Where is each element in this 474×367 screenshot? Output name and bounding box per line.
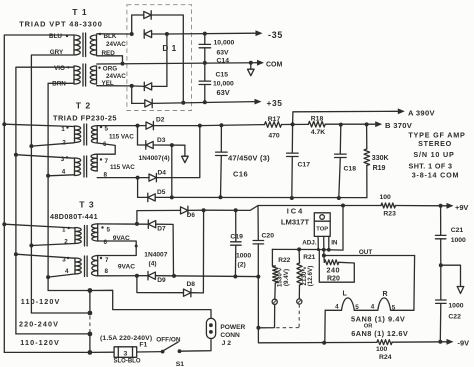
wire R21 bottom dashed: [260, 304, 300, 328]
svg-text:24VAC: 24VAC: [106, 73, 126, 80]
diode D8: [184, 289, 191, 296]
wire T2 pins 6-7 jumper: [97, 143, 115, 154]
svg-text:L: L: [343, 291, 348, 298]
wire D8 out up to +9 rail: [191, 210, 204, 293]
svg-text:5: 5: [105, 126, 109, 133]
svg-text:T 2: T 2: [76, 101, 91, 111]
capacitor C19: [230, 210, 251, 276]
wire riser to A 390V: [293, 108, 436, 124]
bridge rectifier D1 dashed box: [127, 5, 192, 111]
wire -9V arrow: [438, 339, 469, 348]
svg-text:C21: C21: [451, 227, 464, 234]
svg-text:110-120V: 110-120V: [21, 297, 61, 306]
wire R18 to B arrow: [325, 121, 413, 130]
wire YEL node: [97, 85, 132, 87]
svg-text:ORG: ORG: [103, 66, 117, 73]
wire RED to com: [97, 56, 123, 64]
resistor R17: [265, 116, 282, 140]
diode D6: [181, 207, 188, 214]
node RED-ORG junction: [121, 62, 125, 66]
svg-text:D8: D8: [187, 281, 196, 288]
transformer T2: [53, 101, 135, 179]
svg-text:1000: 1000: [236, 253, 251, 260]
svg-text:STEREO: STEREO: [418, 139, 452, 148]
wire pin5 to D3: [137, 126, 139, 145]
svg-text:IN: IN: [331, 240, 338, 247]
wire terminal1 to J2 top: [90, 290, 211, 318]
wire D9 out / heater common rail start: [155, 274, 260, 279]
svg-text:3-8-14 COM: 3-8-14 COM: [412, 171, 460, 180]
svg-text:VIO: VIO: [54, 65, 65, 72]
wire pin5 up to D6: [137, 210, 181, 224]
svg-text:C17: C17: [298, 162, 311, 169]
diode D4: [149, 174, 156, 181]
svg-text:R24: R24: [379, 354, 392, 361]
wire pin8 down to D8: [137, 276, 184, 293]
svg-text:TRIAD FP230-25: TRIAD FP230-25: [53, 114, 117, 123]
svg-text:+35: +35: [267, 98, 283, 108]
svg-text:-9V: -9V: [458, 339, 470, 348]
svg-text:R19: R19: [373, 165, 386, 172]
svg-text:T 3: T 3: [79, 200, 94, 210]
node mains terminal 1: [48, 288, 92, 293]
transformer T3: [50, 200, 135, 277]
svg-text:9VAC: 9VAC: [118, 264, 135, 271]
wire pin8 node: [97, 176, 149, 180]
wire T3 pin8 line: [98, 274, 148, 278]
diode D1c: [144, 83, 151, 90]
wire +9V unreg rail: [204, 204, 377, 213]
svg-text:D 1: D 1: [162, 44, 176, 53]
resistor R19: [364, 124, 389, 197]
transformer T1: [19, 7, 126, 87]
wire +35 rail: [153, 98, 283, 108]
svg-text:D3: D3: [157, 137, 166, 144]
svg-text:100: 100: [376, 346, 388, 353]
svg-text:1000: 1000: [451, 237, 466, 244]
wire heater left down: [324, 310, 326, 342]
ground right side: [439, 263, 464, 293]
wire +9V arrow: [439, 203, 469, 212]
capacitor C18: [335, 125, 357, 198]
svg-text:4: 4: [62, 169, 66, 176]
wire T3 pin4: [46, 274, 74, 279]
svg-text:63V: 63V: [217, 50, 230, 57]
svg-text:7: 7: [105, 257, 109, 264]
svg-text:C19: C19: [230, 234, 243, 241]
svg-text:POWER: POWER: [220, 324, 245, 331]
svg-text:D4: D4: [158, 170, 167, 177]
svg-text:4: 4: [65, 268, 69, 275]
svg-text:100: 100: [380, 194, 392, 201]
node mains terminal 2: [31, 311, 92, 316]
svg-text:CONN: CONN: [220, 332, 240, 339]
svg-text:(9.4V): (9.4V): [283, 269, 290, 286]
wire D6 out: [188, 208, 206, 212]
wire T2 pin1: [2, 122, 74, 126]
svg-text:(12.6V): (12.6V): [307, 266, 314, 287]
svg-text:5: 5: [107, 226, 111, 233]
wire T2 pin5 line: [97, 124, 146, 128]
pin IN: [318, 206, 343, 252]
wire D3-D5 join: [155, 145, 174, 199]
svg-text:F1: F1: [139, 341, 147, 348]
svg-text:TRIAD VPT 48-3300: TRIAD VPT 48-3300: [19, 20, 102, 29]
capacitor C15: [199, 63, 234, 102]
connector J2: [206, 318, 245, 347]
resistor R21: [297, 249, 316, 304]
wire T3 pin5 line: [98, 222, 149, 226]
diode D7: [148, 221, 155, 228]
svg-text:4: 4: [335, 303, 339, 310]
svg-text:6AN8 (1) 12.6V: 6AN8 (1) 12.6V: [351, 329, 408, 338]
heater winding R: [371, 291, 396, 312]
svg-text:R: R: [383, 291, 388, 298]
diode D1d bottom: [145, 100, 152, 107]
wire terminal strap: [89, 291, 91, 353]
svg-text:1N4007: 1N4007: [144, 252, 167, 259]
svg-text:C20: C20: [262, 232, 275, 239]
svg-text:ADJ.: ADJ.: [302, 240, 317, 247]
heater winding L: [335, 291, 359, 311]
svg-text:LM317T: LM317T: [281, 218, 310, 227]
svg-text:B 370V: B 370V: [385, 121, 413, 130]
svg-text:D9: D9: [157, 277, 166, 284]
wire OUT line: [324, 249, 415, 256]
svg-text:SLO-BLO: SLO-BLO: [114, 358, 141, 364]
svg-text:(4): (4): [149, 261, 157, 268]
svg-text:D2: D2: [156, 117, 165, 124]
svg-text:J 2: J 2: [222, 340, 232, 347]
svg-text:470: 470: [268, 133, 280, 140]
svg-text:R20: R20: [327, 276, 340, 283]
resistor R23: [377, 194, 447, 218]
svg-text:TOP: TOP: [316, 226, 328, 232]
node D1b cathode junction: [165, 32, 169, 36]
svg-text:R22: R22: [278, 257, 290, 264]
svg-text:1N4007(4): 1N4007(4): [139, 155, 170, 162]
svg-text:R21: R21: [303, 254, 315, 261]
capacitor C16: [216, 125, 271, 197]
svg-text:3: 3: [124, 351, 128, 358]
wire HV rail: [200, 123, 265, 127]
svg-text:SHT. 1 OF 3: SHT. 1 OF 3: [409, 162, 453, 171]
svg-text:D6: D6: [187, 212, 196, 219]
svg-text:110-120V: 110-120V: [20, 338, 60, 347]
wire HV ground rail: [172, 195, 367, 200]
svg-text:115 VAC: 115 VAC: [109, 133, 134, 140]
wire D1a to +35 rail: [151, 15, 183, 103]
wire D3 cathode to ground: [153, 143, 185, 147]
wire VIO primary bus: [16, 67, 74, 334]
svg-text:OFF/ON: OFF/ON: [156, 336, 181, 343]
wire pin8 down to D5: [137, 178, 139, 198]
svg-text:330K: 330K: [372, 155, 389, 162]
pin OUT: [322, 236, 326, 257]
svg-text:(2): (2): [238, 261, 246, 268]
svg-text:220-240V: 220-240V: [19, 320, 59, 329]
svg-text:R18: R18: [311, 116, 324, 123]
wire -9V rail: [258, 277, 377, 345]
capacitor C20: [253, 206, 274, 277]
capacitor C21: [435, 206, 466, 265]
wire D1b junction down to D1c: [166, 34, 168, 86]
wire -35 rail: [167, 30, 283, 40]
note type block: [408, 131, 465, 180]
wire heater baseline: [325, 309, 414, 311]
wire BLU primary bus: [4, 35, 73, 352]
svg-text:+9V: +9V: [455, 203, 468, 212]
wire D4 out up to D2 rail: [156, 126, 199, 178]
wire terminal4 to fuse: [90, 351, 114, 353]
svg-text:T 1: T 1: [72, 7, 87, 17]
svg-text:C18: C18: [344, 166, 357, 173]
diode D2: [146, 122, 153, 129]
wire COM rail: [97, 60, 283, 69]
svg-text:1: 1: [61, 126, 65, 133]
wire D7 out down: [156, 224, 174, 276]
svg-text:-35: -35: [268, 30, 283, 40]
svg-text:48D080T-441: 48D080T-441: [50, 212, 98, 221]
wire R22 bottom to bus: [256, 304, 274, 329]
diode D1b: [144, 30, 151, 37]
svg-text:TYPE GF AMP: TYPE GF AMP: [408, 131, 465, 140]
svg-text:240: 240: [327, 266, 341, 275]
note voltage taps: [19, 297, 152, 347]
wire T2 pin4: [46, 174, 74, 178]
wire BRN primary bus: [48, 83, 73, 290]
diode D1a top: [144, 11, 151, 18]
svg-text:5AN8 (1) 9.4V: 5AN8 (1) 9.4V: [351, 315, 405, 324]
node D2/D4 output: [198, 124, 202, 128]
wire OUT down to heater right: [413, 256, 416, 311]
capacitor C14: [199, 34, 234, 65]
svg-text:OUT: OUT: [359, 249, 372, 256]
svg-text:R23: R23: [383, 211, 396, 218]
resistor R18: [308, 116, 325, 137]
svg-text:COM: COM: [266, 62, 283, 69]
svg-text:S/N 10 UP: S/N 10 UP: [413, 150, 454, 159]
node mains terminal 4: [4, 350, 92, 355]
wire BLK node to D1: [97, 15, 144, 36]
diode D9: [148, 272, 155, 279]
svg-text:D5: D5: [157, 189, 166, 196]
svg-text:24VAC: 24VAC: [106, 41, 126, 48]
svg-text:115 VAC: 115 VAC: [110, 164, 135, 171]
svg-text:BLU: BLU: [49, 33, 62, 40]
resistor R20 loop: [319, 250, 354, 283]
wire ADJ line to R21/R22: [272, 247, 318, 251]
svg-text:A 390V: A 390V: [408, 109, 435, 118]
svg-text:7: 7: [105, 158, 109, 165]
svg-text:4.7K: 4.7K: [311, 129, 325, 136]
op-amp regulator IC4 LM317T: [281, 207, 330, 237]
svg-text:I C 4: I C 4: [287, 207, 303, 216]
capacitor C17: [287, 124, 311, 198]
wire T3 pin2: [29, 244, 74, 248]
svg-text:47/450V (3): 47/450V (3): [228, 154, 270, 163]
node mains terminal 3: [16, 332, 92, 337]
wire T2 pin2: [29, 143, 74, 148]
svg-text:6: 6: [104, 239, 108, 246]
svg-text:10,000: 10,000: [213, 81, 234, 88]
ground at COM: [250, 63, 252, 69]
svg-text:C22: C22: [448, 314, 461, 321]
svg-text:D7: D7: [157, 226, 166, 233]
capacitor C22: [436, 265, 464, 342]
wire heater left joins -9V rail: [323, 342, 325, 344]
wire YEL node down to D1d: [131, 86, 133, 104]
resistor R24: [376, 340, 447, 361]
pin ADJ: [302, 236, 320, 251]
ground at D3: [184, 145, 186, 156]
svg-text:8: 8: [105, 268, 109, 275]
diode D5: [148, 194, 155, 201]
wire GRY primary bus: [31, 55, 73, 313]
svg-text:4: 4: [371, 304, 375, 311]
svg-text:C15: C15: [216, 72, 229, 79]
wire T3 pin3: [14, 252, 75, 258]
svg-text:1000: 1000: [448, 302, 463, 309]
resistor R22: [272, 249, 291, 304]
wire T3 pin1: [2, 222, 74, 228]
switch S1: [156, 336, 184, 367]
wire fuse to switch: [137, 351, 163, 353]
wire D2 out: [153, 125, 199, 127]
wire T3 pins 6-7 jumper: [98, 241, 138, 256]
svg-text:C16: C16: [233, 170, 248, 179]
diode D3: [146, 141, 153, 148]
node R17/C17: [282, 122, 309, 126]
wire switch to J2 bottom: [180, 339, 212, 352]
note heater tubes: [351, 315, 408, 339]
svg-text:63V: 63V: [217, 88, 230, 97]
svg-text:R17: R17: [268, 116, 281, 123]
svg-text:10,000: 10,000: [214, 40, 235, 47]
fuse F1: [114, 341, 148, 364]
wire T2 pin3: [14, 153, 74, 159]
svg-text:S1: S1: [176, 361, 185, 367]
